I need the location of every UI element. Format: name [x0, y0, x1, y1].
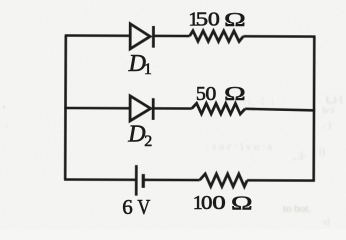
svg-text:·ѕог·іνо·ѕ: ·ѕог·іνо·ѕ: [206, 142, 275, 153]
svg-text:0: 0: [205, 82, 216, 105]
battery 6V: [136, 165, 143, 196]
label D2: [127, 122, 152, 150]
svg-text:5: 5: [196, 8, 208, 30]
resistor 150 ohm: [190, 31, 244, 42]
wire bottom right segment: [247, 179, 315, 182]
wire left vertical: [64, 36, 67, 180]
svg-text:D: D: [127, 122, 145, 148]
wire right vertical: [312, 37, 315, 181]
wire bottom middle segment: [143, 179, 199, 182]
svg-text:·ѕі: ·ѕі: [320, 217, 330, 228]
svg-text:tο bοt.: tο bοt.: [283, 203, 311, 215]
svg-text:·i,·l·i: ·i,·l·i: [243, 97, 276, 107]
svg-text:i): i): [319, 147, 325, 158]
svg-text:5: 5: [196, 83, 206, 105]
wire middle left segment: [64, 107, 130, 110]
svg-text:V: V: [137, 197, 150, 220]
svg-text:іν·i: іν·i: [322, 105, 335, 115]
wire top left segment: [65, 34, 131, 37]
wire top middle segment: [153, 35, 190, 38]
wire middle right segment: [245, 109, 315, 111]
label 100 ohm: [193, 191, 253, 214]
resistor 100 ohm: [200, 174, 248, 187]
diode D2: [130, 96, 153, 121]
svg-text:Ω: Ω: [224, 9, 246, 31]
wire top right segment: [243, 35, 315, 38]
svg-text:0: 0: [208, 7, 220, 30]
diode D1: [130, 24, 153, 49]
label 6V: [122, 195, 150, 219]
svg-text:Ω: Ω: [231, 192, 253, 214]
label D1: [128, 51, 152, 78]
svg-text:0: 0: [212, 192, 225, 214]
svg-text:0: 0: [201, 191, 213, 213]
resistor 50 ohm: [192, 103, 245, 114]
svg-text:Ω: Ω: [224, 83, 246, 105]
svg-text:,·): ,·): [322, 120, 331, 131]
svg-text:6: 6: [122, 195, 133, 219]
wire bottom left segment: [64, 178, 136, 181]
svg-text:2: 2: [144, 133, 152, 150]
svg-text:1: 1: [144, 61, 152, 78]
wire middle mid segment: [153, 107, 192, 110]
label 50 ohm: [196, 82, 246, 105]
svg-text:, ;i·: , ;i·: [293, 151, 307, 162]
label 150 ohm: [188, 7, 245, 30]
